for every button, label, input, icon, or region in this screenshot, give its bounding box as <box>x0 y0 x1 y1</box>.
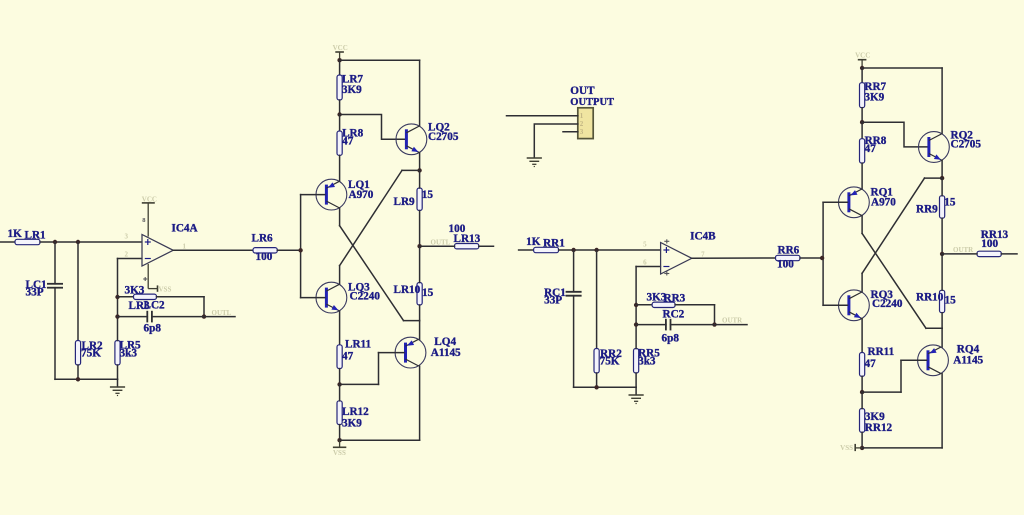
wire <box>596 373 598 387</box>
svg-text:OUTL: OUTL <box>431 238 451 246</box>
resistor LR11 (47) <box>337 345 342 369</box>
transistor LQ2 (NPN) <box>396 124 427 155</box>
wire <box>420 245 455 247</box>
wire <box>861 432 863 448</box>
wire <box>861 108 863 123</box>
wire ground net <box>574 386 637 388</box>
wire <box>941 328 943 347</box>
wire <box>942 253 977 255</box>
wire <box>419 366 421 440</box>
wire <box>861 163 863 189</box>
power port VCC <box>858 60 867 68</box>
wire input net <box>519 249 534 251</box>
svg-text:47: 47 <box>865 358 877 370</box>
svg-text:LR13: LR13 <box>454 233 481 245</box>
svg-text:6p8: 6p8 <box>144 323 162 335</box>
wire <box>925 177 943 179</box>
wire <box>40 241 142 243</box>
wire <box>157 296 205 298</box>
svg-text:75K: 75K <box>600 356 620 368</box>
junction <box>571 248 575 252</box>
resistor LR8 (47) <box>337 131 342 155</box>
svg-text:1: 1 <box>580 112 584 120</box>
wire <box>419 60 421 126</box>
resistor RR5 (3k3) <box>634 349 639 374</box>
power port VSS (left) <box>333 440 346 447</box>
wire feedback net <box>117 259 119 341</box>
svg-text:100: 100 <box>256 251 273 263</box>
svg-text:7: 7 <box>701 251 705 259</box>
wire input net <box>0 241 15 243</box>
svg-text:LR12: LR12 <box>342 406 369 418</box>
wire bottom return <box>862 447 942 449</box>
svg-text:VSS: VSS <box>840 444 853 452</box>
wire cross diagonal <box>340 170 402 265</box>
wire <box>861 319 863 353</box>
capacitor RC2 <box>666 319 671 331</box>
svg-text:1K: 1K <box>526 236 541 248</box>
wire <box>54 288 56 380</box>
capacitor LC2 <box>147 311 152 323</box>
wire pin 2 to ground <box>534 124 578 158</box>
wire pin 3 stub <box>563 131 578 133</box>
svg-text:OUT: OUT <box>570 85 595 97</box>
transistor LQ1 (PNP) <box>316 179 347 210</box>
svg-text:LC2: LC2 <box>144 300 166 312</box>
wire <box>404 320 420 322</box>
resistor RR3 (3K3) <box>652 302 675 307</box>
junction <box>634 303 638 307</box>
wire <box>596 250 598 349</box>
svg-text:3K3: 3K3 <box>125 285 145 297</box>
wire <box>339 311 341 345</box>
op-amp IC4B <box>661 243 692 275</box>
capacitor RC1 <box>566 292 582 296</box>
power port VSS (right) <box>855 444 862 451</box>
resistor RR1 (1K) <box>534 247 559 252</box>
wire <box>573 296 575 388</box>
wire <box>861 273 863 292</box>
junction <box>860 66 864 70</box>
svg-text:OUTPUT: OUTPUT <box>570 97 614 108</box>
node OUTL <box>417 244 421 248</box>
resistor RR6 (100) <box>776 255 801 260</box>
junction <box>115 295 119 299</box>
wire <box>419 321 421 340</box>
wire <box>941 254 943 290</box>
wire <box>118 258 142 260</box>
junction <box>337 112 341 116</box>
wire VCC rail <box>862 67 942 69</box>
wire <box>339 384 341 400</box>
wire <box>941 160 943 178</box>
wire <box>636 324 666 326</box>
svg-text:2: 2 <box>580 120 584 128</box>
wire <box>277 249 300 251</box>
wire <box>823 304 847 306</box>
svg-text:RR9: RR9 <box>916 204 938 216</box>
wire net OUTL <box>152 316 235 318</box>
junction <box>860 390 864 394</box>
wire <box>301 194 325 196</box>
svg-text:RR12: RR12 <box>865 422 893 434</box>
resistor RR11 (47) <box>860 353 865 377</box>
junction <box>337 438 341 442</box>
wire <box>339 100 341 115</box>
wire <box>861 122 863 139</box>
pin 4 stub (IC4B) <box>664 271 669 275</box>
node OUTR <box>940 252 944 256</box>
transistor RQ2 (NPN) <box>919 132 950 163</box>
transistor LQ3 (NPN) <box>316 282 347 313</box>
junction <box>76 377 80 381</box>
resistor LR2 (75K) <box>75 341 80 366</box>
resistor RR8 (47) <box>860 139 865 163</box>
junction <box>115 314 119 318</box>
junction <box>298 248 302 252</box>
wire cross diagonal <box>862 233 926 328</box>
svg-text:3: 3 <box>125 233 129 241</box>
wire <box>635 373 637 387</box>
wire <box>926 327 942 329</box>
wire <box>339 60 341 75</box>
junction <box>860 120 864 124</box>
transistor RQ1 (PNP) <box>839 187 870 218</box>
svg-text:OUTR: OUTR <box>953 246 974 254</box>
resistor LR7 (3K9) <box>337 75 342 100</box>
wire <box>340 383 379 385</box>
wire net OUTR <box>671 324 748 326</box>
connector OUTPUT (3-pin header) <box>578 108 593 139</box>
svg-text:47: 47 <box>865 143 877 155</box>
transistor RQ3 (NPN) <box>839 290 870 321</box>
resistor LR10 (15) <box>417 283 422 306</box>
wire <box>339 155 341 181</box>
ground (connector) <box>527 158 542 167</box>
wire <box>861 376 863 392</box>
svg-text:33P: 33P <box>544 295 562 307</box>
svg-text:47: 47 <box>342 350 354 362</box>
power port VSS (IC4A) <box>148 264 157 292</box>
wire <box>419 211 421 247</box>
svg-text:5: 5 <box>643 241 647 249</box>
wire <box>941 313 943 329</box>
svg-text:A1145: A1145 <box>953 355 983 367</box>
junction <box>634 322 638 326</box>
svg-text:3k3: 3k3 <box>638 356 656 368</box>
svg-text:VSS: VSS <box>333 449 346 457</box>
wire base column <box>822 202 824 305</box>
svg-text:LR9: LR9 <box>394 196 416 208</box>
svg-text:100: 100 <box>981 238 998 250</box>
resistor LR5 (3k3) <box>115 341 120 366</box>
wire <box>339 208 341 226</box>
junction <box>53 240 57 244</box>
junction <box>594 385 598 389</box>
svg-text:3K9: 3K9 <box>865 411 885 423</box>
resistor RR9 (15) <box>940 196 945 219</box>
wire <box>635 387 637 395</box>
wire <box>203 297 205 317</box>
wire <box>339 115 341 132</box>
wire bottom return <box>340 439 420 441</box>
svg-text:RR6: RR6 <box>778 245 800 257</box>
wire ground net <box>55 378 118 380</box>
wire <box>862 391 901 393</box>
wire <box>339 369 341 385</box>
wire IC4A output <box>173 249 253 251</box>
svg-text:VCC: VCC <box>855 52 870 60</box>
svg-text:OUTR: OUTR <box>722 316 743 324</box>
svg-text:3K9: 3K9 <box>342 417 362 429</box>
resistor LR12 (3K9) <box>337 401 342 425</box>
svg-text:C2705: C2705 <box>428 131 459 143</box>
junction <box>76 240 80 244</box>
wire cross diagonal <box>862 178 924 273</box>
op-amp IC4A <box>142 235 173 267</box>
svg-text:A1145: A1145 <box>431 347 461 359</box>
wire <box>118 296 134 298</box>
svg-text:47: 47 <box>342 135 354 147</box>
svg-text:A970: A970 <box>349 189 374 201</box>
wire <box>941 178 943 196</box>
resistor LR1 (1K) <box>15 239 40 244</box>
svg-text:1K: 1K <box>8 228 23 240</box>
svg-text:C2240: C2240 <box>350 291 381 303</box>
svg-text:A970: A970 <box>871 197 896 209</box>
capacitor LC1 <box>47 284 63 288</box>
svg-text:15: 15 <box>422 189 434 201</box>
wire <box>941 374 943 448</box>
svg-text:VCC: VCC <box>333 44 348 52</box>
svg-text:C2705: C2705 <box>951 139 982 151</box>
wire VCC rail <box>340 59 420 61</box>
wire <box>419 170 421 188</box>
resistor LR9 (15) <box>417 188 422 211</box>
resistor LR13 (100) <box>455 244 479 249</box>
resistor RR7 (3K9) <box>860 83 865 108</box>
wire <box>117 365 119 379</box>
svg-text:3k3: 3k3 <box>120 348 138 360</box>
wire <box>419 305 421 321</box>
wire <box>861 392 863 408</box>
wire base of top NPN <box>862 122 927 147</box>
svg-text:C2240: C2240 <box>872 298 903 310</box>
wire <box>339 425 341 441</box>
wire <box>823 201 847 203</box>
junction <box>594 248 598 252</box>
wire <box>941 68 943 134</box>
svg-text:15: 15 <box>422 287 434 299</box>
wire <box>1001 253 1017 255</box>
wire <box>117 379 119 387</box>
svg-text:1: 1 <box>183 243 187 251</box>
junction <box>860 446 864 450</box>
wire <box>301 297 325 299</box>
svg-text:3: 3 <box>580 128 584 136</box>
svg-text:RR11: RR11 <box>868 346 895 358</box>
wire <box>402 169 420 171</box>
junction <box>202 314 206 318</box>
wire <box>800 257 822 259</box>
wire <box>77 242 79 341</box>
junction <box>337 382 341 386</box>
wire <box>379 352 405 354</box>
transistor LQ4 (PNP) <box>395 337 426 368</box>
wire feedback net <box>635 267 637 349</box>
svg-text:VSS: VSS <box>159 285 172 293</box>
resistor LR3 (3K3) <box>134 294 157 299</box>
svg-text:LR10: LR10 <box>394 284 421 296</box>
svg-text:2: 2 <box>125 251 129 259</box>
ground <box>629 395 644 404</box>
svg-text:LR11: LR11 <box>345 339 372 351</box>
svg-text:15: 15 <box>945 295 957 307</box>
wire <box>559 249 661 251</box>
wire <box>54 242 56 284</box>
svg-text:3K9: 3K9 <box>342 84 362 96</box>
pin 4 marker <box>143 277 147 281</box>
svg-text:33P: 33P <box>26 287 44 299</box>
wire <box>479 245 494 247</box>
wire <box>861 68 863 83</box>
svg-text:15: 15 <box>944 197 956 209</box>
wire IC4B output <box>692 257 776 259</box>
wire <box>378 353 380 385</box>
svg-text:RR3: RR3 <box>664 292 686 304</box>
junction <box>337 58 341 62</box>
junction <box>417 168 421 172</box>
wire pin 1 <box>507 115 578 117</box>
power port VCC (IC4A) <box>142 203 155 237</box>
resistor RR12 (3K9) <box>860 409 865 433</box>
svg-text:3K9: 3K9 <box>864 92 884 104</box>
wire <box>419 246 421 282</box>
svg-text:6: 6 <box>643 259 647 267</box>
wire <box>77 365 79 379</box>
wire <box>941 218 943 254</box>
wire <box>419 153 421 171</box>
resistor LR6 (100) <box>253 248 277 253</box>
pin 8 stub (IC4B) <box>664 239 669 243</box>
svg-text:RC2: RC2 <box>663 308 685 320</box>
wire <box>861 216 863 234</box>
wire base column <box>300 195 302 298</box>
wire <box>714 305 716 325</box>
svg-text:LR6: LR6 <box>252 233 274 245</box>
resistor RR2 (75K) <box>594 349 599 374</box>
svg-text:RR10: RR10 <box>916 292 944 304</box>
transistor RQ4 (PNP) <box>918 345 949 376</box>
svg-text:RR1: RR1 <box>543 238 565 250</box>
svg-text:6p8: 6p8 <box>662 332 680 344</box>
wire <box>675 304 714 306</box>
wire <box>636 266 660 268</box>
wire <box>636 304 652 306</box>
power port VCC <box>335 52 344 60</box>
wire <box>901 359 927 361</box>
wire <box>118 316 148 318</box>
svg-text:VCC: VCC <box>142 196 157 204</box>
svg-text:100: 100 <box>777 259 794 271</box>
ground <box>110 387 125 396</box>
junction <box>712 322 716 326</box>
svg-text:OUTL: OUTL <box>212 309 232 317</box>
svg-text:IC4B: IC4B <box>690 231 716 243</box>
resistor RR10 (15) <box>940 290 945 313</box>
wire base of top NPN <box>340 115 405 140</box>
wire <box>900 360 902 392</box>
wire cross diagonal <box>340 226 404 321</box>
resistor RR13 (100) <box>977 251 1001 256</box>
svg-text:75K: 75K <box>81 348 101 360</box>
wire <box>339 266 341 285</box>
wire <box>573 250 575 292</box>
junction <box>940 176 944 180</box>
svg-text:LR1: LR1 <box>25 230 47 242</box>
junction <box>820 256 824 260</box>
svg-text:IC4A: IC4A <box>172 223 198 235</box>
